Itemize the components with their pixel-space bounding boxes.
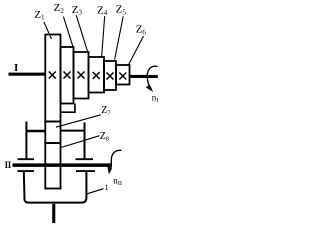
svg-text:II: II [5,160,12,170]
svg-text:I: I [14,62,18,74]
svg-text:1: 1 [105,182,109,192]
